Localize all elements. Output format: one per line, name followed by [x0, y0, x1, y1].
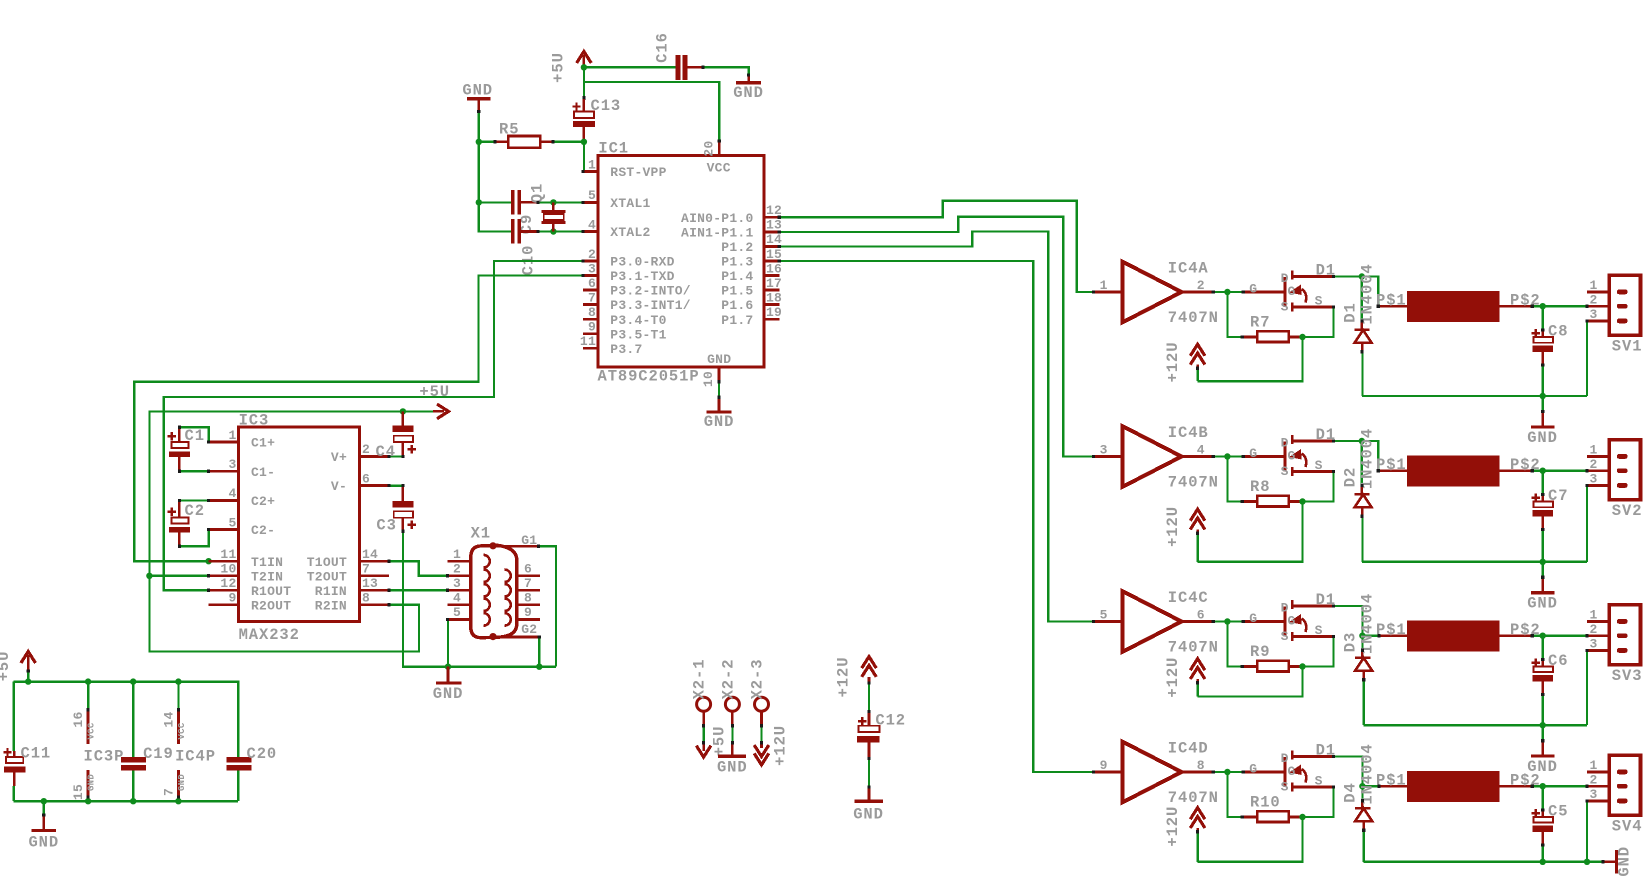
svg-text:S: S [1281, 629, 1289, 644]
svg-text:GND: GND [733, 84, 764, 102]
svg-text:R1IN: R1IN [315, 584, 347, 599]
wire to IC1 pin 1 [583, 142, 585, 172]
junction R/source node [1299, 498, 1305, 504]
svg-text:6: 6 [588, 276, 596, 291]
svg-text:SV2: SV2 [1612, 502, 1643, 520]
relay coil K [1376, 620, 1541, 651]
capacitor C9 [511, 190, 583, 234]
IC1 pin 2 P3.0-RXD [583, 247, 675, 270]
svg-text:VCC: VCC [177, 722, 187, 739]
svg-text:P1.4: P1.4 [721, 269, 753, 284]
crystal Q1 [529, 183, 566, 232]
wire G2 to GND bus [538, 637, 540, 667]
wire C16 to GND [703, 67, 749, 75]
svg-text:X2-1: X2-1 [691, 659, 709, 700]
junction GND rail node [1540, 859, 1546, 865]
svg-text:GND: GND [462, 81, 493, 99]
svg-text:P3.5-T1: P3.5-T1 [610, 327, 666, 342]
svg-text:C2: C2 [185, 502, 205, 520]
junction GND rail [41, 798, 47, 804]
svg-text:S: S [1281, 300, 1289, 315]
svg-text:1: 1 [1589, 608, 1597, 623]
svg-text:GND: GND [717, 759, 748, 777]
junction gate node [1224, 453, 1230, 459]
svg-text:C20: C20 [247, 745, 278, 763]
wire P3.1-TXD to MAX232 T1IN [134, 276, 583, 562]
svg-text:G: G [1249, 281, 1257, 296]
wire P1.0 to IC4A input [779, 201, 1093, 292]
ground GND (top-left, flipped) [462, 81, 493, 111]
svg-text:VCC: VCC [87, 722, 97, 739]
supply GND arrow (X2-1) [696, 743, 711, 757]
supply +12V arrow (channel) [1164, 657, 1205, 698]
junction R/source node [1299, 334, 1305, 340]
capacitor C8 [1532, 306, 1569, 396]
svg-text:AIN0-P1.0: AIN0-P1.0 [681, 211, 753, 226]
junction VCC rail [85, 678, 91, 684]
junction T1IN node [205, 558, 211, 564]
svg-text:S: S [1281, 780, 1289, 795]
svg-text:11: 11 [220, 547, 236, 562]
wire T1OUT to X1 pin2 [389, 561, 448, 576]
svg-text:SV4: SV4 [1612, 818, 1643, 836]
junction gate node [1224, 289, 1230, 295]
svg-text:+5U: +5U [0, 651, 13, 682]
junction GND rail [175, 798, 181, 804]
svg-text:2: 2 [1589, 622, 1597, 637]
svg-text:IC3: IC3 [239, 411, 270, 429]
svg-text:IC1: IC1 [598, 140, 629, 158]
svg-text:C1-: C1- [251, 465, 275, 480]
svg-text:C7: C7 [1548, 487, 1568, 505]
svg-text:16: 16 [71, 711, 86, 727]
pad X2-2 [711, 659, 740, 757]
wire to +12V rail [1198, 337, 1303, 381]
svg-text:3: 3 [588, 261, 596, 276]
connector SV2 [1587, 440, 1642, 521]
IC3 pin 3 C1- [209, 457, 276, 480]
svg-text:S: S [1315, 623, 1323, 638]
svg-text:9: 9 [1100, 758, 1108, 773]
junction drain node [1359, 273, 1365, 279]
svg-text:3: 3 [1589, 307, 1597, 322]
IC3 pin 6 V- [331, 471, 389, 494]
capacitor C4 [376, 411, 417, 461]
wire source to R node [1303, 472, 1334, 502]
svg-text:+12U: +12U [1164, 506, 1182, 547]
wire drain node to relay P$1 [1362, 785, 1379, 787]
svg-text:T2OUT: T2OUT [307, 569, 347, 584]
supply +12V arrow (channel) [1164, 342, 1205, 383]
junction P$2 node [1540, 468, 1546, 474]
svg-text:C16: C16 [654, 32, 672, 63]
IC1 pin 13 AIN1-P1.1 [681, 218, 782, 241]
X1 pin 1 [448, 547, 490, 568]
svg-text:GND: GND [1616, 846, 1634, 877]
junction gate node [1224, 618, 1230, 624]
svg-text:P$1: P$1 [1376, 292, 1407, 310]
svg-text:11: 11 [580, 334, 596, 349]
svg-text:1: 1 [1589, 443, 1597, 458]
ground GND (rotated, bottom right) [1587, 846, 1634, 877]
svg-text:G: G [1288, 449, 1296, 464]
buffer IC4B 7407N [1094, 424, 1219, 492]
resistor R7 [1227, 292, 1302, 342]
buffer IC4A 7407N [1094, 259, 1219, 327]
svg-text:7: 7 [362, 562, 370, 577]
svg-text:P1.3: P1.3 [721, 255, 753, 270]
capacitor C19 [121, 682, 174, 802]
wire C9 left [479, 201, 511, 203]
svg-text:7407N: 7407N [1168, 474, 1219, 492]
IC1 pin 12 AIN0-P1.0 [681, 203, 782, 226]
IC1 pin 20 VCC [702, 140, 731, 175]
X1 shield pin G2 [493, 622, 539, 637]
svg-text:P1.2: P1.2 [721, 240, 753, 255]
IC3 pin 13 R1IN [315, 576, 389, 599]
supply +12V arrow (C12) [834, 657, 876, 698]
junction C13/R5/RST node [581, 139, 587, 145]
wire R1IN to X1 pin3 [389, 589, 448, 591]
diode D2 1N4004 [1342, 428, 1377, 562]
wire P3.0-RXD to MAX232 R1OUT [164, 261, 583, 590]
svg-text:V+: V+ [331, 450, 347, 465]
svg-text:C13: C13 [591, 97, 622, 115]
svg-text:P1.5: P1.5 [721, 284, 753, 299]
pad X2-1 [691, 659, 711, 743]
svg-text:14: 14 [161, 711, 176, 727]
IC1 pin 15 P1.3 [721, 247, 782, 270]
wire drain to relay/diode node [1334, 757, 1363, 787]
svg-text:4: 4 [453, 591, 461, 606]
IC3 pin 2 V+ [331, 442, 389, 465]
wire +12V to C12 [868, 683, 870, 711]
svg-text:C1: C1 [185, 427, 205, 445]
svg-text:C3: C3 [376, 517, 396, 535]
svg-text:R2OUT: R2OUT [251, 598, 291, 613]
IC1 pin 17 P1.5 [721, 276, 782, 299]
svg-text:1: 1 [1589, 278, 1597, 293]
relay coil K [1376, 771, 1541, 802]
junction VCC rail [130, 678, 136, 684]
IC1 pin 5 XTAL1 [583, 188, 651, 211]
junction drain node [1359, 438, 1365, 444]
junction GND rail node [1540, 722, 1546, 728]
junction VCC rail [25, 678, 31, 684]
svg-text:G: G [1288, 764, 1296, 779]
svg-text:5: 5 [588, 188, 596, 203]
X1 pin 5 [448, 605, 490, 625]
resistor R5 [479, 121, 584, 148]
svg-text:G2: G2 [521, 622, 537, 637]
junction P$2 node [1540, 783, 1546, 789]
buffer IC4C 7407N [1094, 589, 1219, 657]
svg-text:3: 3 [1589, 637, 1597, 652]
svg-text:D1: D1 [1342, 302, 1360, 322]
junction XTAL1 node [550, 199, 556, 205]
svg-text:D3: D3 [1342, 632, 1360, 652]
svg-text:2: 2 [362, 442, 370, 457]
ground GND (below X1) [433, 667, 464, 703]
resistor R8 [1227, 457, 1302, 507]
transistor QA MOSFET [1243, 271, 1333, 315]
wire GND to R5/crystal column [478, 112, 480, 142]
pad X2-3 [749, 659, 769, 743]
IC1 pin 7 P3.3-INT1/ [583, 290, 691, 313]
junction GND rail node [1540, 559, 1546, 565]
svg-text:T1OUT: T1OUT [307, 555, 347, 570]
IC IC3 MAX232 body [239, 411, 360, 644]
svg-text:9: 9 [524, 605, 532, 620]
supply +12V arrow (channel) [1164, 806, 1205, 862]
svg-text:18: 18 [766, 290, 782, 305]
supply +5V arrow (power block) [0, 651, 35, 682]
capacitor C12 [857, 711, 906, 758]
IC1 pin 9 P3.5-T1 [583, 320, 667, 343]
svg-text:7: 7 [524, 576, 532, 591]
wire source to R node [1303, 307, 1334, 337]
wire P1.2 to IC4C input [779, 232, 1093, 622]
svg-text:19: 19 [766, 305, 782, 320]
wire X1 pin5 to GND bus [447, 619, 449, 666]
svg-text:C2-: C2- [251, 523, 275, 538]
svg-text:IC4A: IC4A [1168, 259, 1209, 277]
svg-text:8: 8 [1197, 758, 1205, 773]
svg-text:+12U: +12U [1164, 342, 1182, 383]
svg-text:G: G [1288, 284, 1296, 299]
svg-text:C6: C6 [1548, 652, 1568, 670]
diode D3 1N4004 [1342, 593, 1377, 725]
IC3 pin 5 C2- [209, 515, 276, 538]
svg-text:+5U: +5U [550, 52, 568, 83]
svg-text:GND: GND [704, 413, 735, 431]
svg-text:8: 8 [524, 591, 532, 606]
capacitor C16 [654, 32, 703, 80]
IC IC1 AT89C2051P body [598, 140, 764, 386]
X1 pin 8 [505, 591, 540, 612]
wire drain to relay/diode node [1334, 440, 1362, 442]
wire GND rail (channel) [1362, 395, 1587, 397]
svg-text:P$1: P$1 [1376, 772, 1407, 790]
svg-text:1: 1 [228, 428, 236, 443]
svg-text:2: 2 [453, 562, 461, 577]
transistor QC MOSFET [1243, 600, 1333, 644]
svg-text:3: 3 [453, 576, 461, 591]
wire P1.1 to IC4B input [779, 217, 1093, 457]
junction GND tap (SV4) [1584, 859, 1590, 865]
IC3 pin 11 T1IN [209, 547, 284, 570]
wire C12 to GND [868, 758, 870, 787]
svg-text:+12U: +12U [772, 725, 790, 766]
ground GND (below IC1) [704, 382, 735, 431]
svg-text:8: 8 [588, 305, 596, 320]
IC1 pin 10 GND [701, 352, 731, 387]
junction GND rail [130, 798, 136, 804]
power symbol IC4P [161, 682, 216, 802]
junction T2IN node [146, 573, 152, 579]
wire buffer output to gate node [1213, 771, 1243, 773]
svg-text:1: 1 [588, 157, 596, 172]
svg-text:3: 3 [1589, 787, 1597, 802]
svg-text:GND: GND [28, 833, 59, 851]
svg-text:15: 15 [71, 784, 86, 800]
wire P1.3 to IC4D input [779, 261, 1093, 772]
svg-text:MAX232: MAX232 [239, 626, 300, 644]
IC1 pin 18 P1.6 [721, 290, 782, 313]
wire GND rail (channel) [1364, 724, 1587, 726]
supply +12V arrow (channel) [1164, 506, 1205, 562]
svg-text:C11: C11 [21, 745, 52, 763]
svg-text:T2IN: T2IN [251, 569, 283, 584]
svg-text:AIN1-P1.1: AIN1-P1.1 [681, 226, 753, 241]
wire drain to relay/diode node [1334, 275, 1362, 277]
junction GND bus / X1 G2 [536, 664, 542, 670]
ground GND (X2-2) [717, 743, 748, 777]
wire to +12V rail [1198, 502, 1303, 562]
IC1 pin 14 P1.2 [721, 232, 782, 255]
svg-text:7: 7 [588, 290, 596, 305]
svg-text:14: 14 [362, 547, 378, 562]
ground GND (right of C16) [733, 75, 764, 102]
wire +5V to C16 [584, 66, 676, 68]
svg-text:GND: GND [87, 774, 97, 791]
svg-text:GND: GND [707, 352, 731, 367]
junction R/source node [1299, 663, 1305, 669]
wire P$2 to SV pin 2 [1532, 305, 1587, 307]
svg-text:X1: X1 [471, 524, 491, 542]
wire +5V rail (MAX232 area) [149, 411, 433, 651]
capacitor C3 [376, 486, 416, 535]
svg-text:+12U: +12U [834, 657, 852, 698]
svg-text:5: 5 [453, 605, 461, 620]
relay coil K [1376, 455, 1541, 486]
svg-text:XTAL1: XTAL1 [610, 196, 650, 211]
IC1 pin 19 P1.7 [721, 305, 782, 328]
svg-text:10: 10 [220, 562, 236, 577]
wire buffer output to gate node [1213, 291, 1243, 293]
svg-text:+12U: +12U [1164, 657, 1182, 698]
svg-text:C8: C8 [1548, 322, 1568, 340]
wire source to R node [1303, 787, 1334, 817]
svg-text:3: 3 [1589, 472, 1597, 487]
wire drain node to relay P$1 [1362, 635, 1379, 637]
svg-text:13: 13 [362, 576, 378, 591]
svg-text:IC4B: IC4B [1168, 424, 1209, 442]
svg-text:P$1: P$1 [1376, 456, 1407, 474]
svg-text:IC4P: IC4P [175, 748, 216, 766]
IC1 pin 4 XTAL2 [583, 217, 651, 240]
wire GND rail (channel) [1362, 561, 1587, 563]
svg-text:9: 9 [228, 591, 236, 606]
svg-text:4: 4 [1197, 443, 1205, 458]
svg-text:+12U: +12U [1164, 806, 1182, 847]
svg-text:2: 2 [588, 247, 596, 262]
IC1 pin 3 P3.1-TXD [583, 261, 675, 284]
svg-text:S: S [1315, 293, 1323, 308]
wire P$2 to SV pin 2 [1532, 635, 1587, 637]
svg-text:IC4C: IC4C [1168, 589, 1209, 607]
IC1 pin 11 P3.7 [580, 334, 643, 357]
capacitor C13 [572, 67, 621, 142]
IC3 pin 9 R2OUT [209, 591, 292, 614]
svg-text:17: 17 [766, 276, 782, 291]
IC1 pin 6 P3.2-INTO/ [583, 276, 691, 299]
IC1 pin 1 RST-VPP [583, 157, 667, 180]
svg-text:P1.7: P1.7 [721, 313, 753, 328]
connector SV4 [1587, 755, 1642, 836]
junction GND rail node [1540, 393, 1546, 399]
svg-text:2: 2 [1589, 457, 1597, 472]
svg-text:P$1: P$1 [1376, 621, 1407, 639]
svg-text:G: G [1249, 446, 1257, 461]
X1 pin 3 [448, 576, 490, 597]
wire VCC net from +5V to IC1 pin 20 [585, 82, 719, 141]
svg-text:7407N: 7407N [1168, 639, 1219, 657]
svg-text:VCC: VCC [707, 161, 731, 176]
svg-text:S: S [1315, 773, 1323, 788]
IC3 pin 7 T2OUT [307, 562, 389, 585]
resistor R9 [1227, 622, 1302, 672]
wire drain to relay/diode node [1334, 606, 1363, 636]
svg-text:R9: R9 [1250, 643, 1270, 661]
X1 pin 9 [505, 605, 540, 625]
supply +5V arrow (top, near C13) [550, 52, 592, 83]
IC3 pin 8 R2IN [315, 591, 389, 614]
svg-text:G1: G1 [521, 533, 537, 548]
junction GND rail [85, 798, 91, 804]
svg-text:P3.0-RXD: P3.0-RXD [610, 255, 674, 270]
buffer IC4D 7407N [1094, 739, 1219, 807]
svg-text:10: 10 [701, 371, 716, 387]
junction GND bus / X1 pin5 [445, 664, 451, 670]
relay coil K [1376, 291, 1541, 322]
svg-text:V-: V- [331, 479, 347, 494]
svg-text:1: 1 [453, 547, 461, 562]
svg-text:D2: D2 [1342, 467, 1360, 487]
capacitor C11 [3, 682, 51, 802]
svg-text:8: 8 [362, 591, 370, 606]
X1 pin 4 [448, 591, 490, 612]
wire buffer output to gate node [1213, 455, 1243, 457]
svg-text:6: 6 [1197, 608, 1205, 623]
svg-text:S: S [1315, 458, 1323, 473]
svg-text:X2-2: X2-2 [719, 659, 737, 700]
svg-text:RST-VPP: RST-VPP [610, 165, 666, 180]
svg-text:C2+: C2+ [251, 494, 275, 509]
IC3 pin 10 T2IN [209, 562, 284, 585]
svg-text:C5: C5 [1548, 802, 1568, 820]
svg-text:GND: GND [433, 685, 464, 703]
svg-text:2: 2 [1197, 278, 1205, 293]
wire P$2 to SV pin 2 [1532, 785, 1587, 787]
wire GND rail (power block) [14, 800, 238, 802]
svg-text:IC3P: IC3P [84, 748, 125, 766]
svg-text:SV3: SV3 [1612, 667, 1643, 685]
svg-text:6: 6 [524, 562, 532, 577]
junction P$2 node [1540, 303, 1546, 309]
svg-text:2: 2 [1589, 772, 1597, 787]
junction VCC rail [175, 678, 181, 684]
capacitor C20 [227, 745, 278, 801]
supply +5V arrow (right-pointing) [419, 383, 450, 419]
wire down to C10 [479, 202, 511, 231]
svg-text:2: 2 [1589, 292, 1597, 307]
svg-text:12: 12 [220, 576, 236, 591]
svg-text:7407N: 7407N [1168, 309, 1219, 327]
IC3 pin 12 R1OUT [209, 576, 292, 599]
svg-text:1: 1 [1100, 278, 1108, 293]
svg-text:R7: R7 [1250, 313, 1270, 331]
